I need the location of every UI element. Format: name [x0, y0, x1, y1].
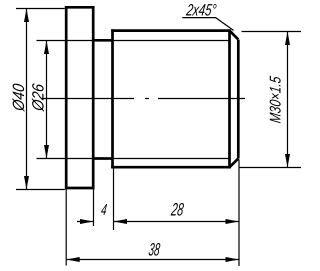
- svg-text:Ø40: Ø40: [10, 82, 28, 113]
- svg-text:M30×1.5: M30×1.5: [266, 75, 284, 124]
- svg-text:2x45°: 2x45°: [184, 2, 217, 20]
- svg-text:Ø26: Ø26: [30, 82, 48, 113]
